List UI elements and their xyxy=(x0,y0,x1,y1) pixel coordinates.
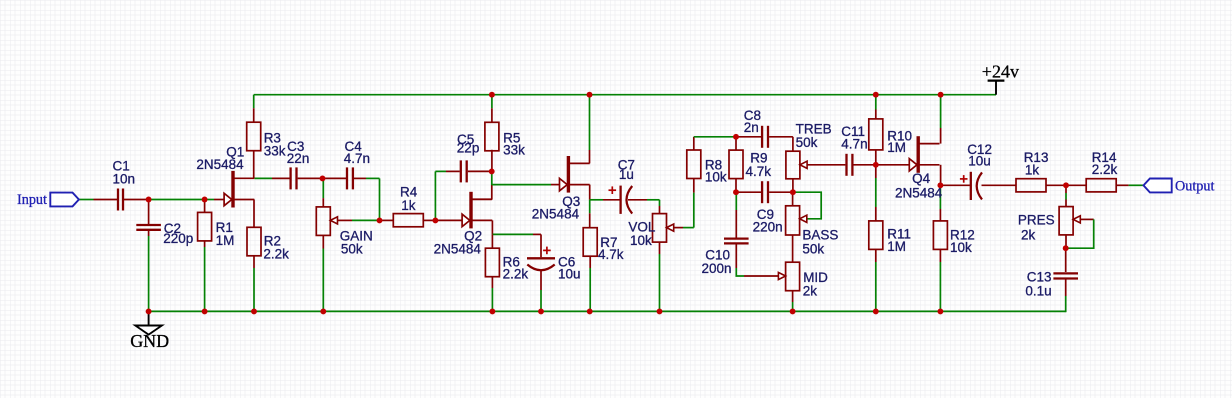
svg-text:TREB: TREB xyxy=(796,121,832,136)
svg-text:200n: 200n xyxy=(702,261,732,276)
svg-text:10k: 10k xyxy=(950,240,972,255)
wire ground rail xyxy=(149,310,1066,312)
wire node E to C5 xyxy=(434,171,436,220)
wire C10 to MID wiper xyxy=(735,244,737,268)
wire Q3 source node to R7 xyxy=(589,200,591,214)
wire Q3 source to C7 xyxy=(590,199,603,201)
wire Q4 drain to rail xyxy=(940,128,942,144)
wire node J to Q4 gate xyxy=(876,164,909,166)
wire R4 to node E xyxy=(423,219,435,221)
wire GAIN wiper to node D xyxy=(338,219,353,221)
node D C4/GAIN wiper/R4 junction xyxy=(377,217,383,223)
wire Q4 source to node K xyxy=(940,165,942,186)
ground junction R11 xyxy=(873,308,879,314)
svg-text:50k: 50k xyxy=(341,242,363,257)
transistor Q1 xyxy=(231,171,234,208)
svg-text:2N5484: 2N5484 xyxy=(434,241,482,256)
wire VOL bottom to ground xyxy=(659,242,661,254)
wire R6 to ground xyxy=(491,277,493,288)
wire Q2 source to C6 xyxy=(492,233,533,235)
node B R1/Q1 junction xyxy=(202,197,208,203)
svg-text:2k: 2k xyxy=(1021,227,1036,242)
wire TREB bottom to node I xyxy=(792,179,794,192)
resistor R5 xyxy=(485,122,499,151)
port Output xyxy=(1144,179,1172,193)
ground junction R7 xyxy=(587,308,593,314)
node A C1/C2/R1 junction xyxy=(146,197,152,203)
rail junction R5 xyxy=(489,92,495,98)
node G R8/C8/R9 junction xyxy=(733,134,739,140)
node I C9/TREB/BASS junction xyxy=(790,189,796,195)
wire C3 to node C xyxy=(298,177,323,179)
svg-text:2.2k: 2.2k xyxy=(503,267,529,282)
svg-text:2.2k: 2.2k xyxy=(1092,162,1118,177)
svg-text:1k: 1k xyxy=(401,198,416,213)
resistor R12 xyxy=(933,221,947,250)
node L R13/R14/PRES junction xyxy=(1063,182,1069,188)
ground junction R1 xyxy=(202,308,208,314)
svg-text:GND: GND xyxy=(130,331,169,351)
resistor R14 xyxy=(1086,179,1116,192)
rail junction R10 xyxy=(873,92,879,98)
wire node L to R14 xyxy=(1066,184,1087,186)
wire node H to C10 xyxy=(735,192,737,210)
capacitor C4 xyxy=(346,167,348,189)
wire R3 to Q1 drain node xyxy=(253,151,255,179)
resistor R3 xyxy=(247,122,261,151)
wire node F branch to Q3 gate xyxy=(492,184,551,186)
svg-text:4.7n: 4.7n xyxy=(841,137,867,152)
capacitor C11 xyxy=(845,154,847,176)
svg-text:4.7k: 4.7k xyxy=(598,247,624,262)
wire node C to GAIN top xyxy=(322,178,324,198)
svg-text:1M: 1M xyxy=(216,233,235,248)
wire R9 to node H xyxy=(735,179,737,193)
wire R2 to ground xyxy=(253,256,255,268)
svg-text:50k: 50k xyxy=(802,241,824,256)
wire R7 to ground xyxy=(589,256,591,268)
wire Q2 source to R6 xyxy=(491,234,493,248)
node H R9/C9/C10 junction xyxy=(733,189,739,195)
ground junction R2 xyxy=(251,308,257,314)
wire node M to C13 xyxy=(1065,248,1067,272)
potentiometer TREB xyxy=(786,151,800,179)
ground junction VOL xyxy=(657,308,663,314)
resistor R7 xyxy=(583,228,597,257)
wire top +24v rail xyxy=(254,94,996,96)
svg-text:1M: 1M xyxy=(887,239,906,254)
node K Q4 source/C12/R12 junction xyxy=(937,182,943,188)
rail junction Q3 drain xyxy=(587,92,593,98)
wire rail to R3 xyxy=(253,95,255,109)
wire R14 to output port xyxy=(1116,184,1129,186)
svg-text:0.1u: 0.1u xyxy=(1025,283,1051,298)
transistor Q4 xyxy=(917,136,920,173)
potentiometer BASS xyxy=(786,206,800,235)
ground junction MID xyxy=(790,308,796,314)
node E R4/C5/Q2 gate junction xyxy=(432,217,438,223)
svg-text:1u: 1u xyxy=(619,167,634,182)
svg-text:22n: 22n xyxy=(287,151,310,166)
node C C3/C4/GAIN junction xyxy=(320,175,326,181)
svg-text:50k: 50k xyxy=(796,135,818,150)
wire TREB wiper to C11 xyxy=(807,164,845,166)
potentiometer GAIN xyxy=(316,207,330,236)
wire BASS bottom to MID top xyxy=(792,235,794,262)
wire R1 to ground xyxy=(204,241,206,247)
svg-text:10k: 10k xyxy=(630,233,652,248)
resistor R8 xyxy=(687,150,701,179)
wire node C to C4 xyxy=(323,177,347,179)
svg-text:1k: 1k xyxy=(1025,162,1040,177)
svg-text:+24v: +24v xyxy=(982,62,1019,82)
ground junction C2 xyxy=(146,308,152,314)
wire Q3 drain to rail xyxy=(589,150,591,163)
wire node L to PRES top xyxy=(1065,185,1067,193)
wire node D to R4 xyxy=(380,219,394,221)
wire Q2 source down xyxy=(491,220,493,234)
potentiometer MID xyxy=(786,262,800,291)
resistor R10 xyxy=(869,119,883,150)
svg-text:2.2k: 2.2k xyxy=(263,247,289,262)
capacitor C5 xyxy=(460,160,462,182)
wire input to C1 xyxy=(79,199,94,201)
wire R8 top to node G xyxy=(693,137,695,150)
node J C11/R10/Q4 gate junction xyxy=(873,162,879,168)
node M PRES/C13 junction xyxy=(1063,245,1069,251)
svg-text:10u: 10u xyxy=(968,153,991,168)
wire node B to R1 xyxy=(204,200,206,213)
capacitor C10 xyxy=(724,237,749,239)
wire node J to R11 xyxy=(875,165,877,178)
wire node A to C2 xyxy=(148,200,150,225)
potentiometer PRES xyxy=(1059,207,1073,235)
svg-text:C13: C13 xyxy=(1027,269,1052,284)
svg-text:Input: Input xyxy=(17,192,47,208)
svg-text:220n: 220n xyxy=(753,220,783,235)
rail junction Q4 drain xyxy=(938,92,944,98)
wire node F down to Q2 drain xyxy=(491,171,493,185)
resistor R2 xyxy=(247,227,261,256)
svg-text:33k: 33k xyxy=(264,144,286,159)
svg-text:33k: 33k xyxy=(503,142,525,157)
svg-text:Q4: Q4 xyxy=(912,171,931,186)
capacitor C2 xyxy=(136,224,161,226)
wire rail to R5 xyxy=(491,95,493,109)
transistor Q2 xyxy=(469,192,472,229)
resistor R11 xyxy=(869,221,883,250)
wire C13 to ground rail xyxy=(1065,279,1067,296)
svg-text:Output: Output xyxy=(1175,178,1214,194)
ground junction R12 xyxy=(937,308,943,314)
resistor R4 xyxy=(393,214,423,227)
svg-text:PRES: PRES xyxy=(1018,213,1055,228)
wire node B to Q1 gate xyxy=(205,199,214,201)
svg-text:22p: 22p xyxy=(457,140,480,155)
wire C12 to R13 xyxy=(982,184,1017,186)
wire node K to C12 xyxy=(940,184,970,186)
svg-text:2N5484: 2N5484 xyxy=(196,157,244,172)
wire MID bottom to ground xyxy=(792,291,794,302)
ground xyxy=(148,311,150,325)
svg-text:2n: 2n xyxy=(744,120,759,135)
wire Q3 source down xyxy=(589,185,591,200)
wire Q1 drain to C3 xyxy=(255,177,273,179)
potentiometer VOL xyxy=(653,214,667,243)
wire C6 to ground xyxy=(540,271,542,290)
wire node H to C9 xyxy=(736,191,761,193)
svg-text:220p: 220p xyxy=(163,231,193,246)
svg-text:10n: 10n xyxy=(113,171,136,186)
capacitor C3 xyxy=(289,167,291,189)
wire C8 to TREB top xyxy=(769,136,793,138)
port Input xyxy=(50,193,79,207)
wire rail to R10 xyxy=(875,95,877,110)
svg-text:10u: 10u xyxy=(558,267,581,282)
capacitor C6 xyxy=(527,257,555,259)
ground junction R6 xyxy=(489,308,495,314)
power +24v xyxy=(995,81,997,95)
wire Q2 drain corner xyxy=(472,198,492,200)
capacitor C1 xyxy=(117,189,119,211)
ground junction C6 xyxy=(538,308,544,314)
resistor R13 xyxy=(1016,179,1046,192)
wire R10 to node J xyxy=(875,150,877,165)
wire R12 to ground xyxy=(939,249,941,262)
capacitor C8 xyxy=(761,126,763,148)
svg-text:2N5484: 2N5484 xyxy=(532,206,580,221)
transistor Q3 xyxy=(567,156,570,193)
wire VOL wiper to R8 xyxy=(674,227,683,229)
node F C5/R5/Q2 drain junction xyxy=(489,168,495,174)
capacitor C7 xyxy=(619,186,621,214)
wire C5 to node F xyxy=(468,170,492,172)
svg-text:2k: 2k xyxy=(803,284,818,299)
wire C4 to node D xyxy=(354,177,366,179)
capacitor C12 xyxy=(970,172,972,200)
wire R5 to node F xyxy=(491,150,493,172)
wire node I to BASS top xyxy=(792,192,794,206)
wire BASS loop xyxy=(793,192,821,219)
ground junction GAIN xyxy=(320,308,326,314)
svg-text:2N5484: 2N5484 xyxy=(895,186,943,201)
wire R11 to ground xyxy=(875,249,877,262)
svg-text:10k: 10k xyxy=(705,169,727,184)
resistor R9 xyxy=(729,150,743,179)
wire C1 to node A xyxy=(124,199,149,201)
wire PRES bottom to node M xyxy=(1065,235,1067,248)
svg-text:4.7n: 4.7n xyxy=(344,151,370,166)
wire C7 to VOL top xyxy=(628,199,647,201)
wire node G to C8 xyxy=(736,136,761,138)
svg-text:4.7k: 4.7k xyxy=(746,164,772,179)
wire GAIN bottom to ground xyxy=(322,235,324,248)
wire node E to Q2 gate xyxy=(435,219,462,221)
wire C2 to ground xyxy=(148,231,150,237)
wire node G to R9 xyxy=(735,137,737,150)
resistor R1 xyxy=(198,212,212,241)
wire node A to node B xyxy=(149,199,205,201)
wire R13 to node L xyxy=(1046,184,1066,186)
resistor R6 xyxy=(485,248,499,277)
wire C11 to node J xyxy=(854,164,876,166)
svg-text:1M: 1M xyxy=(887,140,906,155)
wire C9 to node I xyxy=(769,191,793,193)
capacitor C13 xyxy=(1053,272,1078,274)
capacitor C9 xyxy=(761,181,763,203)
wire PRES wiper loop xyxy=(1080,218,1094,220)
wire node K to R12 xyxy=(939,185,941,209)
wire Q1 source to R2 xyxy=(253,200,255,228)
